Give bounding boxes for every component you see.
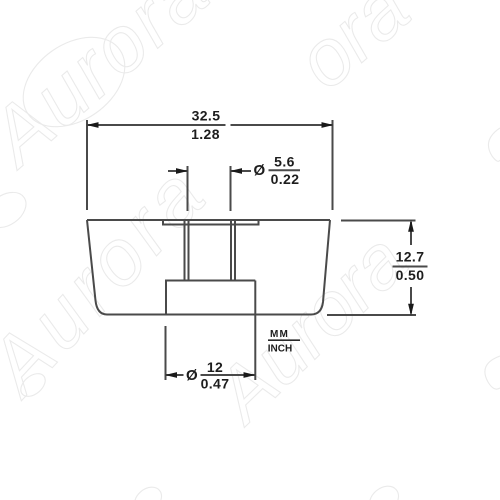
curl before big A bbox=[16, 369, 49, 401]
bottom edge o right bbox=[364, 481, 404, 500]
dim 32.5 line bbox=[87, 124, 226, 126]
dim 12.7 line bbox=[410, 222, 412, 245]
svg-text:INCH: INCH bbox=[268, 343, 292, 354]
svg-text:MM: MM bbox=[270, 329, 289, 340]
arrows bbox=[87, 122, 414, 378]
dim 12 line bbox=[166, 374, 184, 376]
svg-text:12.7: 12.7 bbox=[396, 249, 425, 265]
svg-text:0.47: 0.47 bbox=[201, 375, 230, 391]
top recess bbox=[163, 220, 259, 225]
boss bbox=[166, 281, 255, 315]
svg-text:0.50: 0.50 bbox=[396, 267, 425, 283]
right edge curl lower bbox=[485, 356, 500, 389]
body right slope bbox=[311, 220, 330, 315]
svg-text:12: 12 bbox=[207, 359, 223, 375]
dim 12.7 fraction bar bbox=[393, 266, 428, 268]
corner swirl top-left bbox=[6, 19, 141, 145]
dim 5.6 fraction bar bbox=[269, 169, 301, 171]
dimension texts bbox=[186, 108, 424, 392]
svg-text:1.28: 1.28 bbox=[191, 126, 220, 142]
drawing layer bbox=[87, 120, 428, 380]
svg-text:Ø: Ø bbox=[253, 162, 265, 179]
MM/INCH bar bbox=[268, 339, 300, 341]
svg-text:0.22: 0.22 bbox=[271, 171, 300, 187]
dim 5.6 tails bbox=[168, 170, 188, 172]
right edge curl upper bbox=[488, 128, 500, 161]
body bottom edge bbox=[107, 314, 311, 316]
body left slope bbox=[87, 220, 107, 315]
svg-text:5.6: 5.6 bbox=[274, 154, 295, 170]
body top edge bbox=[87, 219, 330, 221]
left edge curl bbox=[0, 185, 33, 235]
svg-text:Ø: Ø bbox=[186, 367, 198, 384]
dim 32.5 extension lines bbox=[86, 120, 88, 210]
svg-text:32.5: 32.5 bbox=[192, 108, 221, 124]
dim 5.6 extension lines bbox=[187, 166, 189, 211]
dim 12.7 extension lines bbox=[341, 220, 416, 222]
bottom edge o left bbox=[129, 482, 166, 500]
dim 12 extension lines bbox=[165, 326, 167, 380]
hole walls bbox=[184, 221, 186, 281]
